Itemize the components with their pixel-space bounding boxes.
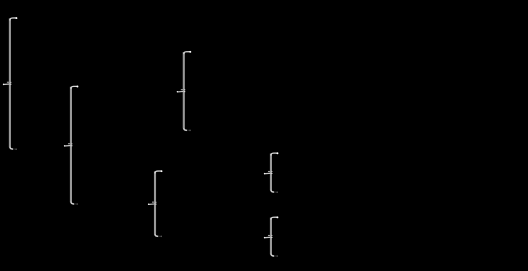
brace B4 (148, 170, 163, 237)
B1 bottom hook (10, 147, 13, 149)
B2 cusp (68, 143, 70, 145)
brace B2 (64, 86, 79, 205)
B5 bottom hook (271, 190, 274, 192)
B2 bottom hook (71, 202, 74, 204)
B6 bottom hook (271, 254, 274, 256)
B4 top hook (155, 171, 162, 173)
B1 stem (9, 18, 11, 147)
B5 top hook (271, 153, 278, 155)
brace B5 (264, 152, 279, 193)
brace B6 (264, 216, 279, 256)
B4 stem (154, 171, 156, 234)
B3 top hook (184, 52, 191, 54)
B4 bottom hook (155, 234, 158, 236)
B3 stem (183, 52, 185, 128)
B1 cusp (7, 81, 9, 83)
B5 cusp (268, 171, 270, 173)
B5 stem (270, 154, 272, 191)
B6 top hook (271, 217, 278, 219)
B4 cusp (152, 201, 154, 203)
B3 bottom hook (184, 128, 187, 130)
brace B1 (3, 17, 18, 150)
B2 top hook (71, 86, 78, 88)
brace B3 (177, 51, 192, 131)
B2 stem (70, 87, 72, 202)
B1 top hook (10, 18, 17, 20)
B6 cusp (268, 235, 270, 237)
B3 cusp (181, 89, 183, 91)
B6 stem (270, 218, 272, 255)
